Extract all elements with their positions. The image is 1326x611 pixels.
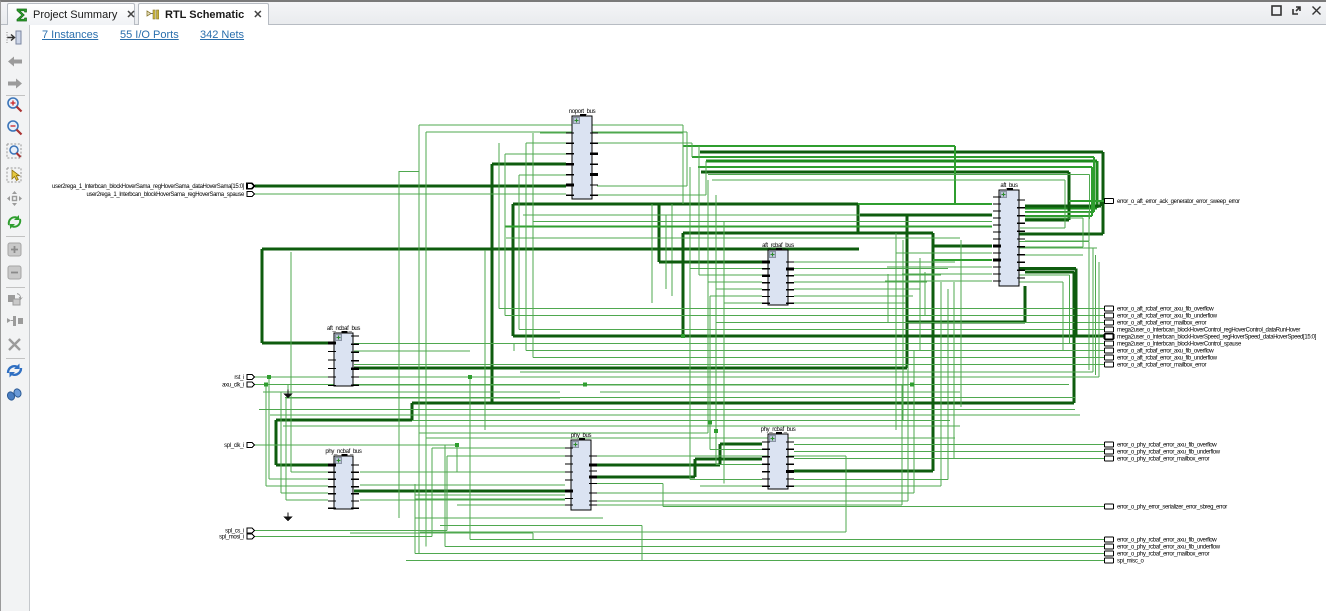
svg-text:error_o_phy_rcbaf_error_mailbo: error_o_phy_rcbaf_error_mailbox_error [1117, 552, 1209, 558]
svg-text:aft_bus: aft_bus [1000, 183, 1018, 189]
svg-text:spi_misc_o: spi_misc_o [1117, 559, 1145, 565]
svg-text:axu_clk_i: axu_clk_i [222, 383, 244, 389]
svg-text:user2rega_1_lnterbcan_blockHov: user2rega_1_lnterbcan_blockHoverSama_reg… [52, 184, 245, 190]
svg-text:error_o_aft_rcbaf_error_axu_fi: error_o_aft_rcbaf_error_axu_fib_overflow [1117, 349, 1214, 355]
svg-text:phy_ncbaf_bus: phy_ncbaf_bus [325, 449, 361, 455]
svg-text:error_o_aft_rcbaf_error_axu_fi: error_o_aft_rcbaf_error_axu_fib_overflow [1117, 307, 1214, 313]
svg-text:user2rega_1_lnterbcan_blockHov: user2rega_1_lnterbcan_blockHoverSama_reg… [86, 192, 245, 198]
svg-text:error_o_phy_rcbaf_error_axu_fi: error_o_phy_rcbaf_error_axu_fib_underflo… [1117, 545, 1221, 551]
svg-text:error_o_phy_rcbaf_error_axu_fi: error_o_phy_rcbaf_error_axu_fib_overflow [1117, 538, 1217, 544]
svg-text:error_o_phy_rcbaf_error_mailbo: error_o_phy_rcbaf_error_mailbox_error [1117, 457, 1209, 463]
svg-text:phy_rcbaf_bus: phy_rcbaf_bus [761, 427, 796, 433]
svg-text:error_o_aft_rcbaf_error_axu_fi: error_o_aft_rcbaf_error_axu_fib_underflo… [1117, 356, 1218, 362]
svg-text:error_o_aft_rcbaf_error_mailbo: error_o_aft_rcbaf_error_mailbox_error [1117, 363, 1206, 369]
svg-text:aft_rcbaf_bus: aft_rcbaf_bus [762, 243, 794, 249]
svg-text:error_o_aft_error_ack_generato: error_o_aft_error_ack_generator_error_sw… [1117, 199, 1240, 205]
svg-text:error_o_aft_rcbaf_error_axu_fi: error_o_aft_rcbaf_error_axu_fib_underflo… [1117, 314, 1218, 320]
svg-text:spl_clk_i: spl_clk_i [224, 443, 244, 449]
svg-text:mega2user_o_lnterbcan_blockHov: mega2user_o_lnterbcan_blockHoverControl_… [1117, 328, 1300, 334]
svg-text:mega2user_o_lnterbcan_blockHov: mega2user_o_lnterbcan_blockHoverSpeed_re… [1117, 335, 1317, 341]
svg-text:aft_ncbaf_bus: aft_ncbaf_bus [327, 326, 360, 332]
svg-text:spl_mosi_i: spl_mosi_i [219, 535, 244, 541]
svg-text:noport_bus: noport_bus [569, 109, 596, 115]
svg-text:error_o_aft_rcbaf_error_mailbo: error_o_aft_rcbaf_error_mailbox_error [1117, 321, 1206, 327]
svg-text:phy_bus: phy_bus [571, 433, 592, 439]
svg-text:error_o_phy_rcbaf_error_axu_fi: error_o_phy_rcbaf_error_axu_fib_underflo… [1117, 450, 1221, 456]
svg-text:error_o_phy_error_serializer_e: error_o_phy_error_serializer_error_sbreg… [1117, 505, 1227, 511]
svg-text:mega2user_o_lnterbcan_blockHov: mega2user_o_lnterbcan_blockHoverControl_… [1117, 342, 1242, 348]
svg-text:error_o_phy_rcbaf_error_axu_fi: error_o_phy_rcbaf_error_axu_fib_overflow [1117, 443, 1217, 449]
svg-text:rst_i: rst_i [234, 375, 244, 381]
